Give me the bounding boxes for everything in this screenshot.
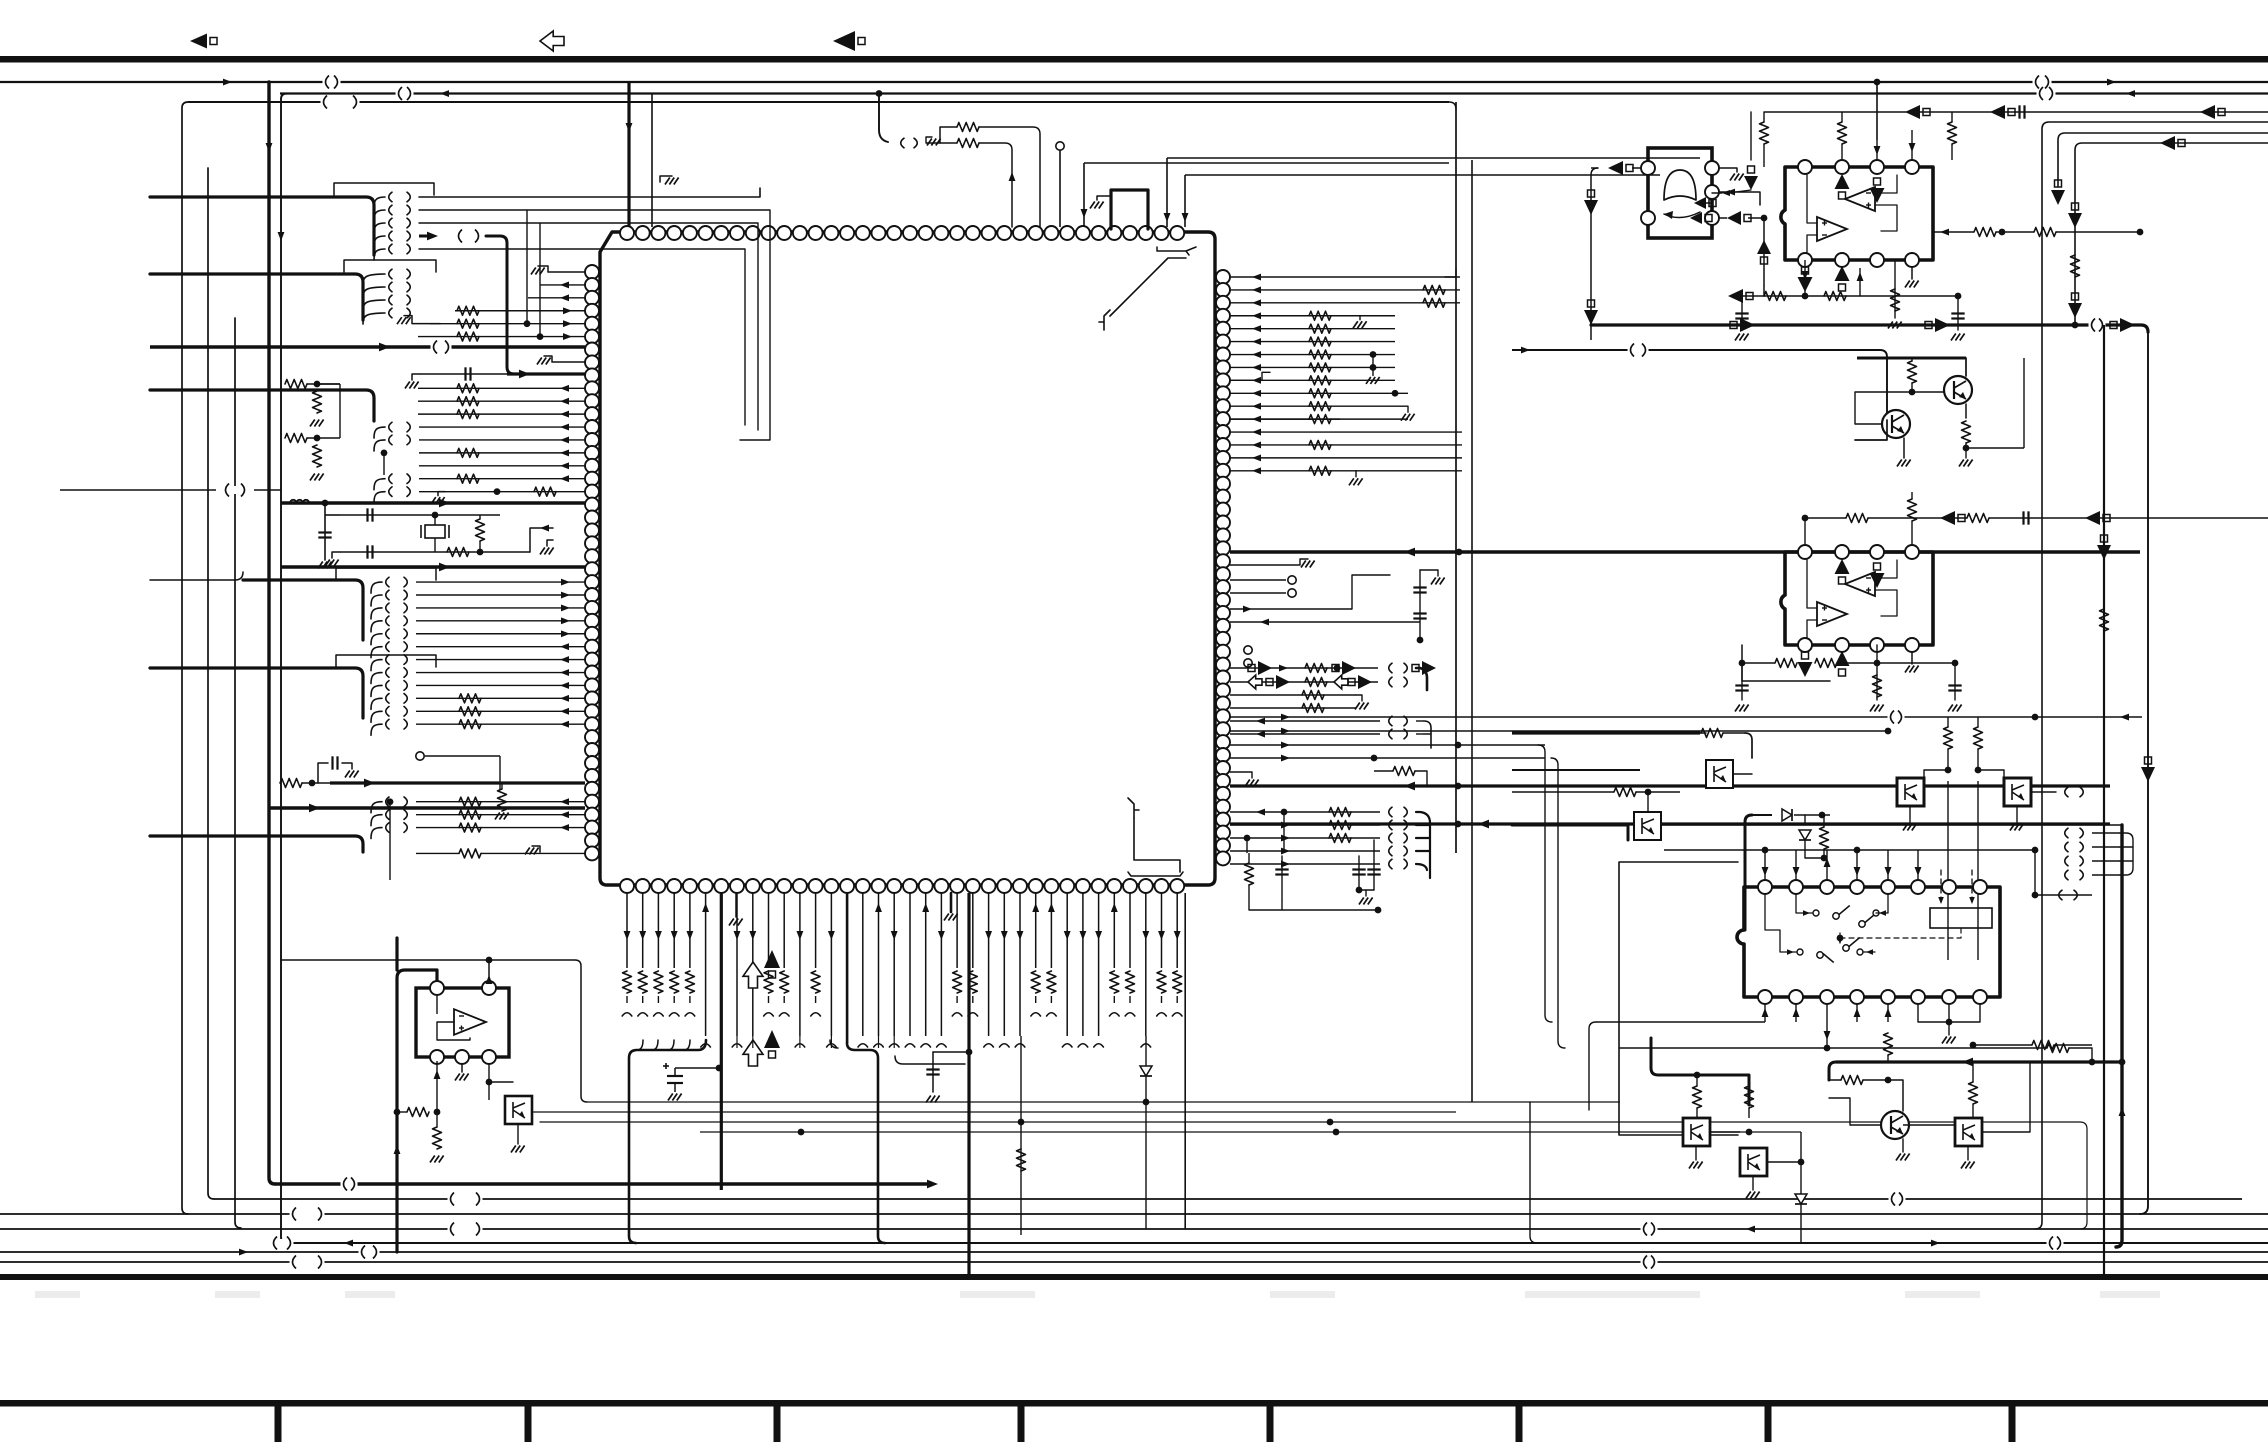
junction electrolytic tap [716, 1065, 723, 1072]
wire right yl825 [1230, 824, 1380, 826]
cap mid lead [932, 1052, 934, 1092]
bottom bus y1262 [0, 1261, 2268, 1263]
flag arrow a2 [1332, 661, 1356, 675]
break bottom bus y1214 [290, 1208, 325, 1221]
diode D1 [1782, 809, 1792, 821]
connector end pin26 [1015, 1044, 1025, 1047]
wire y783 left [280, 782, 281, 784]
connector end pin6 [701, 1044, 711, 1047]
CN-E pin 5 right half [404, 629, 407, 639]
U8 wire d arrow [1866, 949, 1873, 955]
ground lead right y565 [1230, 559, 1308, 565]
flag arrow a3 [1412, 661, 1436, 675]
U8 dashed control [1840, 928, 1961, 938]
ground stub pin0 [538, 266, 548, 272]
ground xtal bottom [325, 560, 339, 567]
res y1045 leads [1973, 1044, 2032, 1046]
chev col wire y861 [2092, 860, 2120, 862]
flag arrow b1 [1266, 675, 1290, 689]
connector arrow y112 c [2200, 105, 2225, 119]
break on bus y102 [321, 96, 360, 109]
wire y733 cont [1723, 732, 1745, 734]
ground lead right ladder [1331, 316, 1360, 320]
wire right pin13 [1230, 444, 1462, 446]
arrow mid pin43 [560, 824, 569, 831]
resistor on x2075 [2071, 255, 2080, 277]
resistor above U6 a [1760, 122, 1769, 144]
CN-C pin 2 hook [374, 440, 385, 451]
pin23 res tail [972, 996, 974, 1003]
CN-B pin 2 left half [389, 282, 392, 292]
resistor under U6 a [1764, 292, 1786, 301]
arrow right pin15 [1252, 467, 1261, 474]
Q1 tap up [2023, 358, 2025, 448]
CN-G pin 1 right half [404, 797, 407, 807]
wire above U7 c [1805, 517, 1846, 519]
arrow top feed x1084 [1081, 209, 1088, 218]
resistor right r11 [1309, 415, 1331, 424]
U8 dash junction [1837, 935, 1844, 942]
IC1 bottom pin13 drop wire [815, 893, 817, 968]
ground U4 base [430, 1156, 444, 1163]
junction x1697 [1694, 1072, 1701, 1079]
right edge wire y143 [2075, 143, 2268, 325]
junction xtal a [432, 512, 439, 519]
chev right y734 [1389, 729, 1392, 739]
wire U5 left bend [1591, 168, 1598, 310]
chev right yl825b [1404, 820, 1407, 830]
arrow left pin14 [560, 449, 569, 456]
chev right y734b [1404, 729, 1407, 739]
thick row y1062 [1836, 1060, 2122, 1063]
res drop r lead [1248, 853, 1250, 863]
junction under U7 [1739, 660, 1746, 667]
resistor left row4 [457, 319, 479, 328]
wire mid pin26 [416, 607, 585, 609]
IC1 bottom pin29 drop wire [1066, 893, 1068, 1036]
connector arrow drop pin2 [1744, 166, 1758, 190]
resistor right ladder8 [1309, 376, 1331, 385]
pin13 res tail [815, 996, 817, 1003]
IC1 bottom pin3 drop wire [657, 893, 659, 968]
CN-A pin 2 left half [389, 205, 392, 215]
wire right pin9 [1230, 392, 1408, 394]
Q1 collector wire [1965, 358, 1967, 376]
wire right pin5 [1230, 341, 1395, 343]
CN-E pin 4 right half [404, 616, 407, 626]
U7 ground [1905, 666, 1919, 673]
arrow mid pin30 [560, 656, 569, 663]
junction long y758 [1371, 755, 1378, 762]
break row y717 [1888, 711, 1905, 724]
CN-A feed thick wire [150, 197, 374, 255]
arrow mid pin24 [561, 579, 570, 586]
CN-A pin 4 right half [407, 231, 410, 241]
CN-E pin 6 right half [404, 642, 407, 652]
arrow U5 pin2 [1726, 189, 1735, 196]
pin28 res tail [1050, 996, 1052, 1003]
arrow right pin13 [1252, 442, 1261, 449]
zener rail [1805, 857, 1824, 859]
chev bundle lower right [1416, 812, 1430, 878]
ground lead bottom b [950, 893, 953, 912]
right edge wire y122 [2035, 122, 2268, 1229]
ground lead y695 [1356, 695, 1362, 701]
CN-F pin 5 hook [371, 724, 382, 735]
ground lead PC4 [517, 1124, 519, 1144]
connector end pin2 [638, 1013, 648, 1016]
IC1 right pin column [1216, 270, 1230, 865]
capacitor under U7 [1735, 686, 1748, 691]
CN-C pin 2 left half [389, 435, 392, 445]
opto-isolator PC2 [2004, 778, 2031, 806]
vert hauler x1456 [1455, 102, 1457, 853]
break bottom bus y1252 [359, 1246, 380, 1259]
drop x1948 [1947, 717, 1949, 727]
arrow thick y1062 [1962, 1058, 1973, 1067]
pin1 res tail [626, 996, 628, 1003]
ground lead cap y374 [412, 374, 420, 380]
U7 arrow b1 [1798, 652, 1813, 677]
bundle bend c [895, 1056, 965, 1064]
junction trunk pair2 [314, 435, 321, 442]
wire mid pin43 [416, 827, 585, 829]
resistor above U6 b [1838, 122, 1847, 144]
wire right pin3 [1230, 315, 1395, 317]
Q3 base bend [1829, 1098, 1850, 1125]
arrow on bus y93 [440, 90, 449, 97]
black arrow bottom field [764, 950, 780, 978]
arrow mid pin32 [560, 682, 569, 689]
wire mid pin24 [416, 581, 585, 583]
junction under U8 rail [1824, 1045, 1831, 1052]
junction right U6 [1999, 229, 2006, 236]
thick wire CN-A row4 [419, 235, 430, 238]
ground lead right y393 [1230, 372, 1270, 380]
op-amp block U4 body [416, 988, 509, 1057]
resistor y1048 [2047, 1044, 2069, 1053]
arrow thick y374 [519, 370, 530, 379]
chev col wire y847 [2092, 846, 2120, 848]
row y350 [1512, 349, 1880, 351]
wire right pin2 [1230, 302, 1460, 304]
resistor y1045 right [2032, 1041, 2054, 1050]
res under U8 tail [1887, 1055, 1889, 1062]
resistor right r10 [1309, 402, 1331, 411]
U8 top feed x1796 [1795, 850, 1797, 880]
outline arrow bottom field2 [743, 1040, 763, 1066]
break on bus y93 right [2037, 87, 2056, 100]
stub right ladder joint [1372, 355, 1374, 368]
junction drop [1356, 887, 1363, 894]
U7 bottom pins [1798, 638, 1919, 652]
resistor y783 drop [498, 789, 507, 811]
arrow U5 mid pin [1722, 190, 1730, 196]
CN-D pin 1 left half [389, 474, 392, 484]
arrow thick y786 [1404, 782, 1415, 791]
CN-E pin 3 left half [386, 603, 389, 613]
arrow mid pin28 [561, 630, 570, 637]
top border bus bar [0, 56, 2268, 63]
CN-B pin 3 left half [389, 295, 392, 305]
wire res path upper out [979, 127, 1040, 227]
ground lead PC6 [1695, 1146, 1697, 1160]
wire pair2 right [307, 437, 340, 439]
pin4 res tail [673, 996, 675, 1003]
U6 cap bottom right [1957, 296, 1959, 330]
flag outline arrow b2 [1334, 675, 1348, 689]
chev right block a [2065, 787, 2068, 797]
flag bundle bend [1416, 668, 1427, 690]
arrow right yl864 [1281, 861, 1290, 868]
resistor mid rowC [459, 720, 481, 729]
cap drop c [1373, 840, 1375, 890]
arrow right pin8 [1252, 377, 1261, 384]
capacitor xtal bottom [368, 545, 373, 558]
page fold tick [275, 1400, 282, 1442]
connector end pin22 [952, 1013, 962, 1016]
resistor right ladder3 [1309, 311, 1331, 320]
wire CN-A row3 long [419, 223, 758, 430]
resistor right y708 [1302, 704, 1324, 713]
wire pair1 right [317, 383, 340, 385]
U6 bottom pins [1798, 253, 1919, 267]
resistor left row3 [457, 306, 479, 315]
chev right y721 [1389, 716, 1392, 726]
opto-isolator PC6 [1683, 1118, 1710, 1146]
ground PC4 [511, 1146, 525, 1153]
CN-D pin 2 left half [389, 487, 392, 497]
U6 res c lead [1951, 144, 1953, 160]
open terminal right y663 [1244, 659, 1252, 667]
pin3 res tail [657, 996, 659, 1003]
arrow U6 pin4 [1909, 143, 1916, 152]
U8 internal wire a [1796, 894, 1888, 913]
resistor left row14 [457, 448, 479, 457]
chev right yl864b [1404, 859, 1407, 869]
IC1 bottom pin18 drop wire [893, 893, 895, 1036]
wire y112 top right [1805, 111, 2268, 113]
left trunk wire x208 [208, 168, 214, 1199]
wire CN-A row1 to right [419, 188, 760, 197]
break bottom bus y1262 r [1641, 1256, 1658, 1269]
ground under U7 cap [1735, 705, 1749, 712]
thick bend into block [1745, 815, 1752, 930]
break row y350 [1628, 344, 1649, 357]
wire left pin17 [419, 491, 585, 493]
arrow right pin2 [1252, 299, 1261, 306]
wire top x1166 horiz [1167, 157, 1700, 159]
junction x1877 bus [1874, 79, 1881, 86]
wire left pin9 [418, 387, 585, 389]
wire right long y758 [1230, 757, 1545, 759]
resistor vert pair1 [313, 391, 322, 413]
wire left pin15 [419, 465, 585, 467]
wire res path upper stub [939, 127, 941, 143]
wire right long y745 [1230, 744, 1545, 746]
arrow on bus y82 right [2107, 79, 2116, 86]
IC1 bottom pin8 drop wire [736, 893, 738, 1036]
wire right rail y895 [2035, 894, 2092, 896]
res x1824 lead [1823, 815, 1825, 827]
U8 top feed arrow x1888 [1885, 867, 1892, 876]
thick stub y358 [1857, 357, 1966, 360]
IC1 bottom pin9 drop wire [752, 893, 754, 1036]
CN-C pin 2 right half [407, 435, 410, 445]
U5 arrow tip [1664, 211, 1673, 219]
page fold tick [2009, 1400, 2016, 1442]
ground bottom b [944, 914, 958, 921]
chev right block a2 [2080, 787, 2083, 797]
faded label remnant [345, 1291, 395, 1298]
CN-E pin 1 left half [386, 577, 389, 587]
IC1 bottom pin24 drop wire [988, 893, 990, 1036]
chev right col y847b [2080, 842, 2083, 852]
ground PC2 [2010, 824, 2024, 831]
CN-B pin 3 right half [407, 295, 410, 305]
CN-E pin 7 right half [404, 655, 407, 665]
U8 reg arrow b [1969, 897, 1975, 904]
connector end pin10 [764, 1013, 774, 1016]
bottom page border [0, 1400, 2268, 1407]
thick zig right [1855, 420, 1887, 440]
arrow under U6 c [1857, 272, 1864, 281]
CN-B pin 4 right half [407, 308, 410, 318]
arrow thick y824 [1478, 820, 1489, 829]
junction y1062 [2089, 1059, 2096, 1066]
CN-E pin 1 hook [371, 582, 382, 593]
wire left pin4 [430, 323, 585, 325]
U8 wire c arrow [1787, 949, 1794, 955]
arrow right pin9 [1252, 390, 1261, 397]
CN-E pin 6 left half [386, 642, 389, 652]
CN-E pin 2 hook [371, 595, 382, 606]
arrow right long y745 [1281, 742, 1290, 749]
resistor under pin35 [1157, 971, 1166, 993]
connector arrow x2058 [2051, 180, 2065, 205]
cap chain right [1419, 570, 1421, 640]
black arrow bottom field2 [764, 1030, 780, 1058]
ground y852 [525, 848, 539, 855]
U6 res b lead2 [1841, 112, 1843, 122]
U6 res bottom [1894, 260, 1896, 318]
CN-A pin 3 left half [389, 218, 392, 228]
junction Q1 base [1909, 389, 1916, 396]
connector end pin5 [685, 1013, 695, 1016]
break mid-left wire [223, 484, 248, 497]
wire y792 b [1636, 791, 1680, 793]
stub row14 down [383, 453, 385, 475]
connector CN-E header [336, 568, 436, 580]
connector end pin30 [1078, 1044, 1088, 1047]
arrow down pin5 [686, 931, 693, 940]
CN-D pin 2 hook [374, 492, 385, 503]
junction y792 [1645, 789, 1652, 796]
U8 reg arrow a [1938, 897, 1944, 904]
wire right pin4 [1230, 328, 1395, 330]
wire open terminal drop [499, 756, 501, 790]
CN-F pin 5 left half [386, 719, 389, 729]
U6 out bottom wire [1764, 286, 1860, 296]
resistor trunk pair1 [285, 380, 307, 389]
arrow U6 pin3 [1874, 146, 1881, 155]
mid-left wire seg [60, 489, 216, 491]
arrow down pin2 [639, 931, 646, 940]
resistor under U6 mid [1891, 289, 1900, 311]
chev jog start [914, 138, 917, 148]
IC1 internal corner mark lower [1128, 798, 1139, 818]
y733 to opto [1700, 732, 1706, 734]
connector CN-B header [344, 260, 436, 272]
lower thick bus bar [0, 1274, 2268, 1280]
arrow right pin6 [1252, 351, 1261, 358]
page fold tick [774, 1400, 781, 1442]
connector arrow x2075 b [2068, 293, 2082, 318]
resistor flag row1 [1305, 664, 1327, 673]
arrow bottom bus y1229 r [1746, 1226, 1755, 1233]
wire mid pin42 [416, 814, 585, 816]
break bottom bus y1229 r [1641, 1223, 1658, 1236]
opto-isolator PC3 [1706, 760, 1733, 788]
junction zener [1821, 855, 1828, 862]
capacitor y763 [333, 756, 338, 769]
arrow up pin27 [1032, 903, 1039, 912]
cap drop b [1358, 856, 1360, 890]
connector arrow U5 pin3 [1727, 211, 1751, 225]
cap y763 leads [318, 763, 352, 783]
connector arrow U5 inner b [1690, 212, 1712, 224]
ground lead jog [926, 137, 932, 143]
chev right yl851b [1404, 846, 1407, 856]
CN-A pin 2 right half [407, 205, 410, 215]
resistor left row9 [457, 384, 479, 393]
wire mid pin27 [416, 620, 585, 622]
CN-E pin 4 hook [371, 621, 382, 632]
ground jog [927, 139, 941, 146]
chev flag a [1389, 663, 1392, 673]
thick row y824 [1230, 822, 2110, 825]
CN-B pin 1 left half [389, 269, 392, 279]
CN-A pin 3 hook [374, 223, 385, 234]
bundle bend b2 [830, 1040, 838, 1048]
arrow row y350 [1521, 347, 1530, 354]
opto-isolator PC1 [1897, 778, 1924, 806]
U4 base wire [397, 1111, 407, 1113]
resistor right ladder7 [1309, 363, 1331, 372]
bottom bus y1184 [275, 1182, 930, 1185]
zener drop [1804, 815, 1806, 824]
IC1 bottom pin34 drop wire [1145, 893, 1147, 1036]
bundle bend y734 [1424, 721, 1431, 748]
bundle A stub p3 [652, 1040, 658, 1050]
U6 bottom wire b [1804, 260, 1806, 296]
thick row y552 [1230, 550, 2140, 553]
arrow mid pin27 [561, 617, 570, 624]
resistor above U6 c [1948, 122, 1957, 144]
arrow right yl812 [1256, 809, 1265, 816]
U8 bottom wire x1857 [1856, 1004, 1858, 1022]
capacitor drop c [1367, 870, 1380, 875]
faded label remnant [1525, 1291, 1700, 1298]
arrow right pin10 [1252, 403, 1261, 410]
arrow right pin0 [1252, 274, 1261, 281]
U8 top feed arrow x1857 [1854, 867, 1861, 876]
resistor under pin36 [1173, 971, 1182, 993]
U8 gnd bus [1918, 1004, 1980, 1035]
junction y503 [322, 500, 329, 507]
CN-G pin 3 hook [371, 828, 382, 839]
cap branch wire y374 [420, 373, 507, 375]
